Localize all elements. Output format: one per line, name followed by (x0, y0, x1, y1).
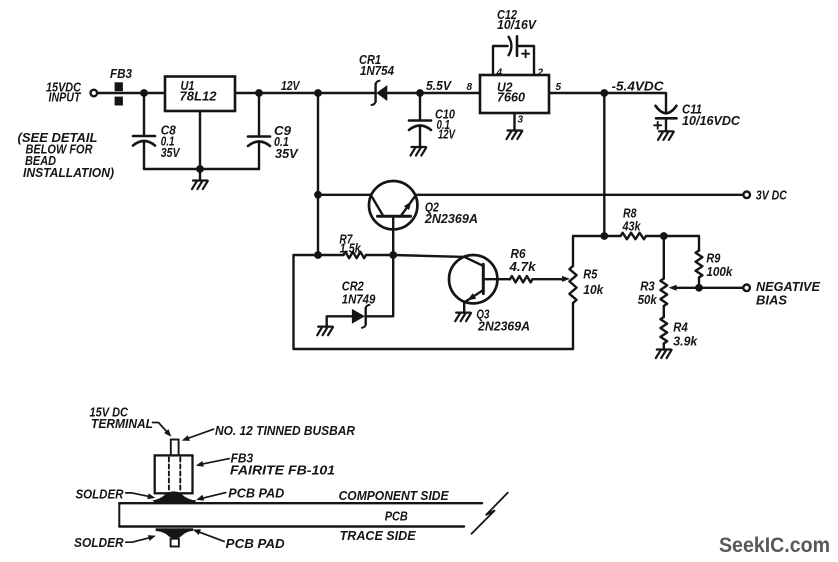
svg-text:SOLDER: SOLDER (74, 535, 124, 550)
svg-text:1N754: 1N754 (360, 63, 395, 78)
svg-text:FAIRITE FB-101: FAIRITE FB-101 (230, 463, 335, 478)
svg-text:TERMINAL: TERMINAL (91, 416, 153, 431)
svg-text:3.9k: 3.9k (673, 334, 698, 349)
svg-text:-5.4VDC: -5.4VDC (612, 79, 665, 94)
svg-text:COMPONENT SIDE: COMPONENT SIDE (339, 488, 449, 503)
svg-text:1N749: 1N749 (342, 292, 376, 307)
svg-text:PCB PAD: PCB PAD (228, 486, 285, 501)
svg-text:10/16VDC: 10/16VDC (682, 113, 741, 128)
svg-text:100k: 100k (706, 264, 733, 279)
svg-text:1.5k: 1.5k (340, 241, 362, 256)
svg-text:10/16V: 10/16V (497, 17, 537, 32)
svg-text:43k: 43k (622, 219, 641, 234)
svg-text:2: 2 (537, 68, 544, 79)
svg-text:SeekIC.com: SeekIC.com (719, 533, 830, 557)
svg-text:4: 4 (496, 68, 503, 79)
svg-text:TRACE SIDE: TRACE SIDE (340, 528, 416, 543)
svg-text:7660: 7660 (497, 90, 526, 105)
svg-text:5: 5 (556, 82, 562, 93)
svg-text:PCB: PCB (385, 509, 408, 524)
svg-text:12V: 12V (438, 127, 456, 142)
svg-text:R4: R4 (673, 320, 688, 335)
svg-text:PCB PAD: PCB PAD (226, 536, 286, 551)
svg-text:R5: R5 (583, 267, 598, 282)
svg-text:35V: 35V (275, 146, 299, 161)
svg-text:NO. 12 TINNED BUSBAR: NO. 12 TINNED BUSBAR (215, 423, 356, 438)
svg-text:3V DC: 3V DC (756, 188, 787, 203)
svg-text:5.5V: 5.5V (426, 78, 452, 93)
svg-text:50k: 50k (638, 292, 658, 307)
svg-text:4.7k: 4.7k (508, 259, 536, 274)
svg-text:10k: 10k (583, 282, 604, 297)
svg-text:3: 3 (518, 115, 524, 126)
svg-text:SOLDER: SOLDER (76, 486, 125, 501)
svg-text:2N2369A: 2N2369A (477, 319, 530, 334)
svg-text:INPUT: INPUT (49, 90, 82, 105)
svg-text:35V: 35V (161, 145, 181, 160)
svg-text:8: 8 (467, 82, 473, 93)
svg-text:INSTALLATION): INSTALLATION) (23, 165, 114, 180)
svg-text:78L12: 78L12 (180, 89, 218, 104)
svg-text:12V: 12V (281, 78, 301, 93)
svg-text:2N2369A: 2N2369A (424, 211, 478, 226)
svg-text:FB3: FB3 (110, 66, 133, 81)
svg-text:BIAS: BIAS (756, 293, 787, 308)
